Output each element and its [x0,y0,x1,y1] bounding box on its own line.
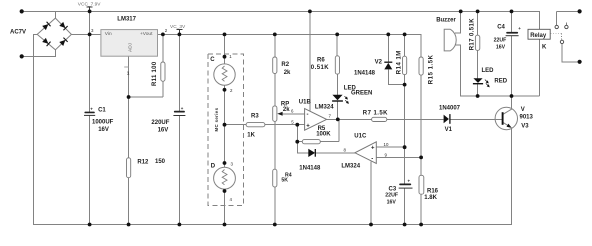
svg-text:RED: RED [494,78,507,84]
svg-text:+Vout: +Vout [140,31,153,37]
svg-text:22UF: 22UF [494,38,507,44]
svg-text:9013: 9013 [520,114,534,120]
svg-text:Buzzer: Buzzer [436,18,456,24]
svg-text:1N4148: 1N4148 [354,71,376,77]
svg-text:LM324: LM324 [315,105,334,111]
svg-text:R16: R16 [427,189,439,195]
svg-text:C4: C4 [497,24,505,30]
svg-text:+: + [181,106,184,111]
svg-text:Vin: Vin [105,31,112,37]
svg-text:V: V [521,107,525,113]
svg-text:+: + [306,124,310,130]
svg-text:U1B: U1B [299,99,312,105]
svg-text:R11 100: R11 100 [152,61,158,86]
svg-text:R2: R2 [281,62,289,68]
svg-text:V3: V3 [521,124,529,130]
svg-text:C: C [210,57,215,63]
svg-text:MC series: MC series [214,107,219,131]
svg-text:R3: R3 [251,114,259,120]
svg-text:D: D [211,163,216,169]
svg-text:16V: 16V [496,45,506,51]
svg-text:2k: 2k [284,70,291,76]
svg-text:+: + [371,146,375,152]
svg-text:GREEN: GREEN [351,90,372,96]
svg-text:R14 1M: R14 1M [397,50,403,74]
svg-text:1K: 1K [247,133,255,139]
svg-text:LM317: LM317 [117,17,136,23]
svg-text:ADJ: ADJ [127,42,133,52]
svg-text:R17 0.51K: R17 0.51K [469,18,475,51]
svg-text:22UF: 22UF [385,193,398,199]
svg-text:100K: 100K [316,132,331,138]
svg-text:220UF: 220UF [151,120,169,126]
svg-text:5K: 5K [281,178,288,184]
svg-text:1N4007: 1N4007 [439,105,461,111]
svg-text:VCC_7.9V: VCC_7.9V [78,2,101,8]
svg-text:-: - [307,112,309,118]
svg-text:+: + [518,26,521,31]
svg-text:C3: C3 [389,186,397,192]
svg-text:LM324: LM324 [341,163,360,169]
svg-text:R15 1.5K: R15 1.5K [428,54,434,84]
svg-text:R7 1.5K: R7 1.5K [363,110,388,116]
svg-text:2k: 2k [283,107,290,113]
svg-text:+: + [90,106,93,111]
svg-text:1.8K: 1.8K [424,195,437,201]
svg-text:C1: C1 [98,107,106,113]
svg-text:+: + [408,179,411,184]
svg-text:1000UF: 1000UF [92,119,114,125]
svg-text:AC7V: AC7V [10,30,26,36]
svg-text:16V: 16V [98,127,109,133]
svg-text:150: 150 [155,159,166,165]
svg-text:LED: LED [482,68,495,74]
svg-text:-: - [371,156,373,162]
svg-text:VC_3V: VC_3V [170,24,186,30]
svg-text:V1: V1 [445,127,453,133]
svg-text:K: K [542,45,547,51]
svg-text:R12: R12 [137,160,149,166]
svg-text:V2: V2 [375,60,383,66]
svg-text:U1C: U1C [354,134,367,140]
svg-text:1N4148: 1N4148 [299,166,321,172]
svg-text:Relay: Relay [530,33,547,39]
svg-text:10: 10 [384,142,389,147]
svg-text:16V: 16V [387,199,397,205]
svg-text:R6: R6 [317,57,325,63]
svg-text:0.51K: 0.51K [311,65,329,71]
svg-text:16V: 16V [158,127,169,133]
